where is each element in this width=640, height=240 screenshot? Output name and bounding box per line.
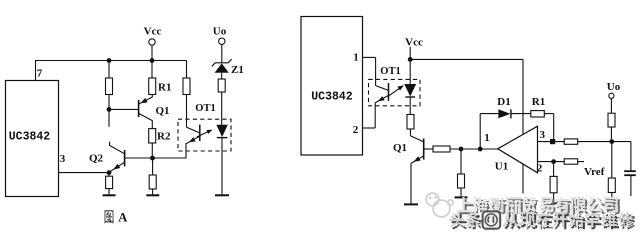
wire Vcc drop to D1 node [522,59,524,134]
node Vcc junction [408,57,413,62]
svg-text:UC3842: UC3842 [9,131,51,144]
resistor Uo divider bottom [611,142,613,178]
zener diode Z1 [212,59,232,73]
wire Z1 to resistor [221,73,223,79]
resistor R2 [149,129,156,143]
wire resistor to OT1 collector [186,95,188,128]
wire feedback up to D1 [479,114,481,149]
wire Q2 base [125,157,153,159]
svg-text:Vcc: Vcc [144,26,162,38]
watermark line1 company name [457,197,620,214]
OT1 right LED [404,84,416,97]
watermark logo toutiao circle [483,211,501,228]
svg-text:Q1: Q1 [393,142,407,154]
svg-text:A: A [118,211,127,225]
OT1 LED [216,125,227,138]
ground lower-mid [146,194,159,196]
figure label A [105,210,114,223]
resistor Q1 collector feed [407,115,414,130]
capacitor C1 [624,142,636,196]
svg-text:1: 1 [353,52,359,64]
ground OT1 LED [215,194,229,196]
node Q2 emitter junction [107,170,112,175]
OT1 light arrow [197,130,213,137]
svg-text:3: 3 [540,129,546,141]
op-amp U1 [498,126,538,173]
resistor pin2 to ground [553,162,555,177]
svg-text:R2: R2 [157,131,171,143]
watermark line2 toutiao [450,212,635,229]
wire Q1 collector to R2 [151,120,153,128]
svg-text:Uo: Uo [607,81,621,93]
wire U1 pin2 [538,161,585,163]
wire D1 to R1 [511,113,531,115]
wire divider middle [108,95,110,127]
wire resistor to Q1 collector [409,129,411,136]
svg-text:2: 2 [353,124,359,136]
diode D1 [498,109,511,118]
ground Uo divider [605,202,618,204]
node Uo divider junction [609,139,614,144]
svg-text:Vcc: Vcc [405,37,423,49]
node pin2 junction [551,159,556,164]
wire R2 to Q2 base node [151,143,153,158]
resistor OT1 collector feed [183,78,190,95]
node junction above divider [107,58,112,63]
svg-text:1: 1 [484,132,490,144]
OT1 right light arrow [389,85,404,96]
wire U1 output to Uo node [538,141,631,143]
wire Vcc rail right [410,58,523,60]
svg-text:3: 3 [60,153,66,165]
node Q1 base junction [107,107,112,112]
resistor output upper [564,139,578,144]
ground pin2 divider [547,202,560,204]
wire pin2 [363,127,376,129]
wire resistor to OT1 LED [221,92,223,125]
svg-text:D1: D1 [497,96,510,108]
svg-text:R1: R1 [532,96,545,108]
resistor lower-mid (below base node) [152,158,154,175]
resistor Vref feed [564,159,578,164]
svg-text:OT1: OT1 [380,66,400,77]
svg-text:7: 7 [37,68,43,80]
resistor Q1 base [433,146,450,152]
resistor R1 right [531,111,545,117]
ground Q2 emitter [103,194,116,196]
wire Q1 emitter down [410,163,412,203]
resistor Uo divider top [608,113,615,127]
transistor Q1 (PNP) [139,97,153,121]
node junction Vcc rail [150,58,155,63]
resistor LED feed left [218,79,225,92]
OT1 right phototransistor [375,83,388,103]
OT1 phototransistor [186,125,200,144]
svg-text:UC3842: UC3842 [311,90,353,103]
svg-text:Vref: Vref [584,166,605,178]
svg-text:R1: R1 [158,82,171,94]
wire base node to optocoupler emitter [153,157,187,159]
svg-text:Z1: Z1 [231,64,244,76]
ground input divider [455,196,468,198]
IC U-left UC3842 box [6,81,59,197]
node Q2 base junction [150,156,155,161]
wire OT1 LED to ground [221,138,223,195]
wire LED to resistor [409,97,411,115]
node input junction B [478,147,483,152]
wire R1 top [151,61,153,79]
wire base resistor to U1 input [450,148,498,150]
wire Q1 base [109,108,138,110]
optocoupler OT1 right dashed box [369,79,421,105]
node pin3 junction [550,139,555,144]
svg-text:U1: U1 [495,160,508,172]
wire pin7 vertical [35,61,37,82]
svg-text:OT1: OT1 [195,103,215,114]
wire Q1 base [424,148,433,150]
wire top rail left circuit [35,60,187,62]
resistor upper-left (bias divider top) [106,78,113,95]
wire divider to junction [610,127,612,142]
IC U-right UC3842 box [301,17,363,156]
svg-text:Q1: Q1 [155,105,169,117]
wire Q2 collector up [109,142,111,146]
svg-text:2: 2 [537,163,543,175]
svg-text:Q2: Q2 [89,153,104,165]
transistor Q2 (NPN) [109,145,124,172]
resistor Q2 emitter [108,173,110,177]
wire R1 to pin3 node [544,113,553,115]
wire Q1 emitter to R1 [151,94,153,97]
resistor R1 [149,78,156,95]
wire rail to upper-left resistor [108,61,110,79]
ground Q1 emitter right [404,203,418,205]
wire below op-amp [522,164,524,193]
node input junction A [459,147,464,152]
wire rail to OT1 resistor [186,61,188,79]
transistor Q1 right (NPN) [410,136,423,164]
watermark logo left [426,193,453,217]
wire Vcc to OT1 LED [409,59,411,84]
svg-text:Uo: Uo [213,26,227,38]
wire pin3 to Q2 emitter [59,172,110,174]
optocoupler OT1 left dashed box [178,119,231,151]
wire pin1 [363,56,376,58]
resistor input to ground [460,149,462,174]
